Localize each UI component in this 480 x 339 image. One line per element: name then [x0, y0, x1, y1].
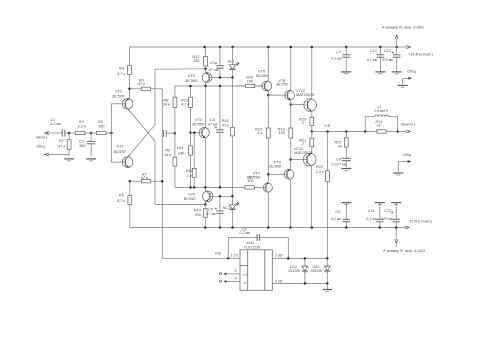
svg-text:К каналу R, выв. 4 DA1: К каналу R, выв. 4 DA1 [383, 248, 425, 253]
node VT3 emitter [204, 68, 207, 71]
svg-text:240: 240 [177, 151, 185, 155]
resistor R12 [186, 133, 196, 188]
capacitor C4 [215, 86, 224, 187]
node C5 top [219, 195, 222, 198]
node L1 right [396, 130, 399, 133]
svg-text:1 к: 1 к [187, 174, 192, 178]
resistor R23 [334, 132, 348, 155]
svg-text:470 мк: 470 мк [381, 217, 392, 221]
transistor VT2 [122, 125, 155, 168]
svg-text:MJE15030: MJE15030 [296, 93, 315, 97]
transistor VT11 [303, 153, 316, 228]
svg-text:C2: C2 [79, 140, 85, 144]
label VT9 [269, 161, 282, 169]
resistor R16 [237, 76, 262, 88]
svg-text:VT3: VT3 [188, 74, 196, 78]
svg-text:R14: R14 [194, 209, 201, 213]
resistor R18 [255, 95, 270, 174]
svg-text:3 (5): 3 (5) [275, 280, 283, 284]
transistor VT5 [203, 187, 213, 204]
transistor VT4 [199, 86, 209, 187]
svg-text:C13: C13 [384, 209, 392, 213]
node VT11 rail [311, 226, 314, 229]
wire VT4 base [191, 132, 200, 134]
label HL1 [227, 60, 234, 64]
svg-text:0,1 мк: 0,1 мк [366, 217, 376, 221]
svg-text:47 мк: 47 мк [209, 68, 219, 72]
resistor R7 [130, 172, 163, 182]
wire VT5 base [213, 195, 233, 197]
resistor R20 [299, 111, 314, 131]
transistor VT10 [304, 47, 317, 112]
label +U [242, 273, 247, 277]
node L1 left [364, 130, 367, 133]
svg-text:BC550: BC550 [277, 83, 290, 87]
resistor R21 [299, 132, 314, 154]
node C3 bottom [219, 76, 222, 79]
node VT5 emitter [204, 203, 207, 206]
label to R channel 4 [383, 248, 425, 253]
svg-text:BC560: BC560 [249, 175, 262, 179]
resistor R10 [181, 86, 192, 133]
wire servo out to box [228, 257, 240, 259]
svg-text:1 (7): 1 (7) [230, 253, 238, 257]
node VT8 emitter [290, 103, 293, 106]
svg-text:VT2: VT2 [116, 145, 124, 149]
svg-text:+U: +U [242, 273, 247, 277]
node R15 bottom [231, 195, 234, 198]
resistor R1 [58, 133, 71, 156]
ground C13 [391, 203, 401, 205]
wire X upper vertical [155, 69, 206, 125]
svg-text:C9: C9 [335, 210, 341, 214]
svg-text:BC550: BC550 [114, 150, 127, 154]
svg-text:+15 В (Стаб.): +15 В (Стаб.) [408, 52, 434, 56]
svg-text:24 к: 24 к [162, 102, 170, 106]
capacitor C7 [331, 47, 350, 72]
wire C6 to inv [287, 237, 289, 258]
svg-text:330: 330 [193, 59, 200, 63]
svg-text:2,2 мк: 2,2 мк [238, 231, 250, 235]
capacitor C2 [79, 133, 95, 156]
node comp cap [174, 132, 177, 135]
transistor VT7 [263, 174, 272, 227]
capacitor C12 [382, 47, 401, 72]
label VT1 [112, 90, 125, 99]
node VT7 rail [267, 226, 270, 229]
label VD2 [310, 265, 322, 273]
resistor R17 [240, 175, 263, 189]
ground mid Общ [393, 173, 403, 175]
node to R channel up [395, 35, 398, 47]
svg-text:2,2 к: 2,2 к [315, 170, 324, 174]
resistor R13 [192, 47, 207, 69]
svg-text:VT5: VT5 [188, 192, 196, 196]
node C4 bottom [219, 186, 222, 189]
node VT8 rail [290, 46, 293, 49]
svg-text:100: 100 [98, 125, 105, 129]
node VT10 rail [311, 46, 314, 49]
node VT9 rail [289, 226, 292, 229]
svg-text:BC560: BC560 [269, 165, 282, 169]
wire output arrow [398, 130, 411, 133]
svg-text:VT6: VT6 [258, 69, 266, 73]
node VT1 emitter [128, 88, 131, 91]
svg-text:47 к: 47 к [141, 176, 148, 180]
capacitor C13 [381, 203, 400, 228]
svg-text:R2: R2 [79, 120, 85, 124]
svg-text:Общ.: Общ. [407, 70, 417, 74]
node mid Общ [398, 153, 412, 172]
node C11 rail [379, 226, 382, 229]
capacitor comp [163, 130, 175, 137]
wire pin2 net [272, 257, 327, 259]
node C4 top [219, 85, 222, 88]
svg-text:Вход L: Вход L [36, 135, 48, 139]
ground R1 [64, 159, 74, 161]
op-amp DA1 box [240, 250, 272, 290]
label VT4 [192, 118, 205, 126]
node R10 bias [189, 85, 192, 88]
svg-text:HL1: HL1 [227, 60, 234, 64]
svg-text:-U: -U [242, 281, 246, 285]
node VD1 a [304, 257, 307, 260]
diode VD2 [324, 258, 332, 283]
capacitor C10 [367, 47, 384, 72]
ground C9 [341, 203, 351, 205]
inductor L1 [365, 115, 398, 132]
svg-text:BC560: BC560 [186, 79, 199, 83]
svg-text:C10: C10 [370, 49, 378, 53]
node Общ arrow left [45, 153, 69, 156]
node VD1 c [304, 282, 307, 285]
svg-text:2,5 мкГн: 2,5 мкГн [373, 109, 388, 113]
svg-text:C7: C7 [336, 50, 342, 54]
capacitor C3 [215, 47, 224, 78]
led HL2 [229, 196, 239, 227]
label HL2 [222, 206, 230, 210]
node base junction [110, 132, 113, 135]
node R22 bottom [326, 257, 329, 260]
ground C8 [341, 169, 351, 171]
resistor R22 [315, 132, 330, 259]
svg-text:390: 390 [79, 144, 86, 148]
svg-text:0,1 мк: 0,1 мк [367, 58, 377, 62]
capacitor C8 [331, 155, 350, 168]
label C5 [206, 208, 216, 216]
node R7 junction [161, 180, 164, 183]
resistor R4 [117, 47, 131, 89]
node HL1 rail [231, 46, 234, 49]
label Выход L [401, 122, 416, 126]
label DA1 [244, 241, 261, 250]
label VT2 [114, 145, 127, 154]
svg-text:C11: C11 [368, 209, 375, 213]
label pin 2(6) [274, 253, 283, 257]
node C12 rail [395, 46, 398, 49]
svg-text:47 к: 47 к [58, 145, 65, 149]
wire VT8em-VT10b [291, 104, 305, 106]
svg-text:1N4148: 1N4148 [310, 269, 322, 273]
label 0V output [324, 124, 330, 128]
label L1 [373, 105, 388, 113]
svg-text:0,027 мк: 0,027 мк [331, 163, 346, 167]
svg-text:100: 100 [278, 131, 285, 135]
wire VT7drive [175, 186, 240, 188]
capacitor C1 [49, 118, 69, 137]
ground C12 [392, 72, 402, 74]
wire VT3 base [212, 77, 233, 79]
resistor R8 [162, 92, 177, 133]
node R14 rail [204, 226, 207, 229]
node C10 rail [379, 46, 382, 49]
svg-text:-15 В (Стаб.): -15 В (Стаб.) [408, 219, 433, 223]
svg-text:VT1: VT1 [115, 90, 122, 94]
resistor R5 [117, 181, 132, 227]
ground C2 [86, 159, 96, 161]
label to R channel 8 [382, 24, 424, 29]
node VT9em-VT11b [289, 158, 292, 161]
node R22 top [326, 130, 329, 133]
wire VD2 ground [326, 283, 328, 289]
node R11 bottom [189, 186, 192, 189]
svg-text:0 В: 0 В [215, 252, 221, 256]
svg-text:51 к: 51 к [222, 123, 229, 127]
node R23 top [345, 130, 348, 133]
svg-text:HL2: HL2 [222, 206, 230, 210]
node C13 rail [395, 226, 398, 229]
transistor VT6 [262, 47, 272, 95]
svg-text:1,2 к: 1,2 к [78, 125, 86, 129]
label VD1 [288, 265, 300, 273]
svg-text:BC550: BC550 [184, 197, 197, 201]
wire VT6em-VT8b [268, 94, 285, 96]
svg-text:100: 100 [247, 79, 254, 83]
node output R20 [311, 130, 314, 133]
resistor R6 [130, 79, 163, 91]
node top Общ [403, 70, 417, 85]
svg-text:0,1 мк: 0,1 мк [331, 217, 341, 221]
svg-text:4: 4 [234, 276, 236, 280]
svg-text:4,7 к: 4,7 к [181, 102, 189, 106]
svg-text:0,1 мк: 0,1 мк [331, 57, 341, 61]
resistor R14 [194, 204, 207, 227]
wire VT2 base [111, 161, 122, 163]
node VT6 rail [267, 46, 270, 49]
label pin 3(5) [275, 280, 283, 284]
label Общ left [36, 145, 46, 149]
svg-text:R22: R22 [316, 165, 324, 169]
node C9 rail [345, 226, 348, 229]
label C3 [209, 61, 219, 72]
transistor VT3 [202, 69, 212, 86]
label C4 [208, 118, 218, 126]
svg-text:47 мк: 47 мк [206, 212, 216, 216]
svg-text:47 мк: 47 мк [208, 122, 218, 126]
node to R channel down [395, 228, 398, 249]
svg-text:4,7 к: 4,7 к [117, 199, 125, 203]
node C6 inv [287, 257, 290, 260]
svg-text:1 к: 1 к [257, 131, 262, 135]
svg-text:Общ.: Общ. [36, 145, 46, 149]
node R12 bottom [193, 186, 196, 189]
node VT6 emitter [267, 94, 270, 97]
wire +15V top rail [130, 45, 411, 48]
svg-text:0 В: 0 В [324, 124, 330, 128]
node HL1 bottom [231, 76, 234, 79]
capacitor C5 [215, 196, 224, 227]
svg-text:R1: R1 [59, 139, 64, 143]
node C7 rail [345, 46, 348, 49]
wire -15V bottom rail [130, 226, 409, 229]
ground C7 [341, 72, 351, 74]
label pin 1(7) [230, 253, 238, 257]
node VT4 emitter node [204, 186, 207, 189]
node C5 rail [219, 226, 222, 229]
ground servo [323, 290, 333, 292]
svg-text:BC550: BC550 [256, 74, 269, 78]
svg-text:R9: R9 [165, 149, 171, 153]
ground C10 [375, 72, 385, 74]
pin 8 arrow [220, 269, 241, 275]
node C3 rail [219, 46, 222, 49]
transistor VT1 [122, 89, 155, 141]
svg-text:24: 24 [376, 123, 381, 127]
resistor R9 [163, 133, 177, 187]
label VT5 [184, 192, 197, 201]
label VT8 [277, 79, 290, 87]
wire VT9 base [268, 173, 284, 175]
transistor VT9 [284, 160, 294, 228]
svg-text:R4: R4 [119, 66, 124, 70]
led HL1 [229, 47, 239, 78]
wire VT11 base [291, 159, 304, 161]
svg-text:1N4148: 1N4148 [288, 269, 300, 273]
svg-text:MJE15031: MJE15031 [294, 151, 312, 155]
svg-text:C12: C12 [384, 49, 392, 53]
transistor VT8 [285, 47, 295, 105]
node R12 top [193, 131, 196, 134]
label +15V [408, 52, 434, 56]
svg-text:100: 100 [247, 179, 254, 183]
resistor R3 [91, 120, 111, 134]
svg-text:R11: R11 [177, 146, 184, 150]
svg-text:Выход L: Выход L [401, 122, 416, 126]
svg-text:24 к: 24 к [163, 153, 171, 157]
node servo out [227, 257, 230, 260]
svg-text:BC560: BC560 [112, 94, 125, 98]
node VT4 base [189, 131, 192, 134]
svg-text:C3: C3 [209, 61, 215, 65]
wire feedback column [162, 89, 228, 258]
svg-text:BC550: BC550 [192, 122, 205, 126]
node R2-C2 [90, 132, 93, 135]
svg-text:C8: C8 [336, 157, 342, 161]
pin 4 arrow [220, 276, 241, 282]
resistor R19 [278, 105, 293, 160]
wire bias rail [175, 86, 262, 92]
svg-text:47 к: 47 к [138, 82, 145, 86]
svg-text:4,7 к: 4,7 к [117, 72, 125, 76]
svg-text:2 (6): 2 (6) [274, 253, 283, 257]
svg-text:330: 330 [194, 213, 201, 217]
wire output [312, 131, 364, 133]
svg-text:R5: R5 [119, 193, 125, 197]
resistor R15 [221, 78, 234, 197]
wire X lower vertical [155, 141, 205, 204]
svg-text:470 мк: 470 мк [382, 58, 393, 62]
label 0V servo [215, 252, 221, 256]
node VT2 emitter [129, 180, 132, 183]
node VD2 c [326, 282, 329, 285]
svg-text:R15: R15 [221, 119, 229, 123]
svg-text:R12: R12 [186, 169, 194, 173]
svg-text:К каналу R, выв. 8 DA1: К каналу R, выв. 8 DA1 [382, 24, 424, 29]
node in junction [68, 132, 71, 135]
wire VT1 base [111, 103, 122, 105]
node VT7 emitter [267, 173, 270, 176]
label -15V [408, 219, 433, 223]
svg-text:TL072CN: TL072CN [244, 246, 261, 250]
label VT10 [296, 89, 315, 97]
node R13 top [203, 46, 206, 49]
resistor R24 [365, 120, 398, 133]
ground top Общ [398, 85, 408, 87]
capacitor C6 [228, 227, 288, 258]
capacitor C11 [366, 203, 383, 228]
resistor R11 [177, 133, 193, 188]
capacitor C9 [331, 203, 350, 228]
node HL2 rail [231, 226, 234, 229]
label -U [242, 281, 246, 285]
resistor R2 [69, 120, 91, 134]
label VT3 [186, 74, 199, 83]
node input arrow Вход L [45, 131, 58, 134]
svg-text:R3: R3 [98, 120, 104, 124]
diode VD1 [301, 258, 309, 283]
label VT7 [249, 171, 262, 179]
wire base column [110, 104, 112, 162]
svg-text:Общ.: Общ. [403, 153, 413, 157]
label Вход L [36, 135, 48, 139]
node VT3 collector [204, 85, 207, 88]
svg-text:DA1: DA1 [247, 241, 254, 245]
label VT11 [294, 147, 312, 155]
label VT6 [256, 69, 269, 78]
svg-text:2,2 мк: 2,2 мк [49, 122, 61, 126]
ground C11 [375, 203, 385, 205]
wire pin3 net [272, 282, 327, 284]
